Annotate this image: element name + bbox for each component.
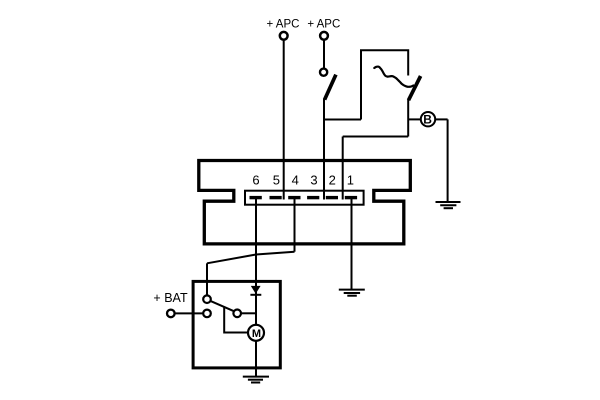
svg-text:3: 3 (310, 173, 317, 188)
svg-text:1: 1 (347, 173, 354, 188)
svg-text:4: 4 (292, 173, 299, 188)
svg-text:6: 6 (252, 173, 259, 188)
svg-text:M: M (252, 328, 261, 340)
svg-text:5: 5 (273, 173, 280, 188)
svg-text:+ BAT: + BAT (153, 291, 188, 305)
svg-text:B: B (423, 113, 432, 127)
svg-text:+ APC: + APC (307, 18, 340, 30)
svg-text:2: 2 (329, 173, 336, 188)
svg-text:+ APC: + APC (267, 18, 300, 30)
